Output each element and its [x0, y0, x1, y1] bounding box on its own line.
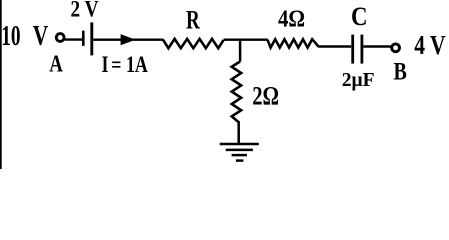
svg-text:R: R	[186, 4, 200, 34]
svg-text:I = 1A: I = 1A	[102, 53, 148, 78]
svg-text:2 V: 2 V	[71, 0, 99, 22]
svg-text:4Ω: 4Ω	[278, 5, 305, 32]
svg-text:2Ω: 2Ω	[252, 82, 279, 111]
svg-text:2μF: 2μF	[342, 69, 375, 91]
svg-text:10: 10	[1, 20, 20, 52]
svg-text:4 V: 4 V	[414, 31, 446, 61]
svg-text:A: A	[49, 49, 63, 77]
svg-text:C: C	[351, 3, 368, 32]
svg-text:B: B	[394, 57, 407, 85]
svg-text:V: V	[33, 21, 48, 52]
